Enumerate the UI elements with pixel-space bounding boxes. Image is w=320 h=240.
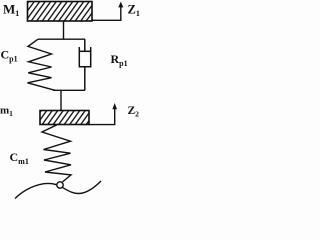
wire: drop from M1 to spring/damper bar <box>63 21 65 39</box>
arrow Z1 (displacement of M1) <box>92 7 121 21</box>
road surface wave <box>15 181 101 199</box>
spring Cp1 (suspension spring) <box>28 39 56 90</box>
mass M1 (sprung mass, hatched rectangle) <box>14 1 101 23</box>
svg-text:Z2: Z2 <box>128 105 140 119</box>
arrow Z2 (displacement of m1) <box>89 109 115 125</box>
svg-text:M1: M1 <box>3 2 19 19</box>
svg-text:Rp1: Rp1 <box>111 52 128 68</box>
spring Cm1 (tyre spring) <box>42 125 71 182</box>
damper Rp1 (dashpot: rod, piston plate, cup) <box>79 39 90 90</box>
wire: bottom bar joining spring and damper <box>53 89 85 91</box>
wire: drop from bar to mass m1 <box>60 90 62 111</box>
svg-text:Cm1: Cm1 <box>10 150 29 166</box>
wheel contact circle <box>57 182 63 188</box>
svg-text:Z1: Z1 <box>128 2 140 17</box>
svg-text:m1: m1 <box>0 105 13 119</box>
svg-text:Cp1: Cp1 <box>1 48 18 64</box>
mass m1 (unsprung mass, hatched rectangle) <box>31 110 98 126</box>
wire: top bar joining spring and damper <box>38 38 85 40</box>
